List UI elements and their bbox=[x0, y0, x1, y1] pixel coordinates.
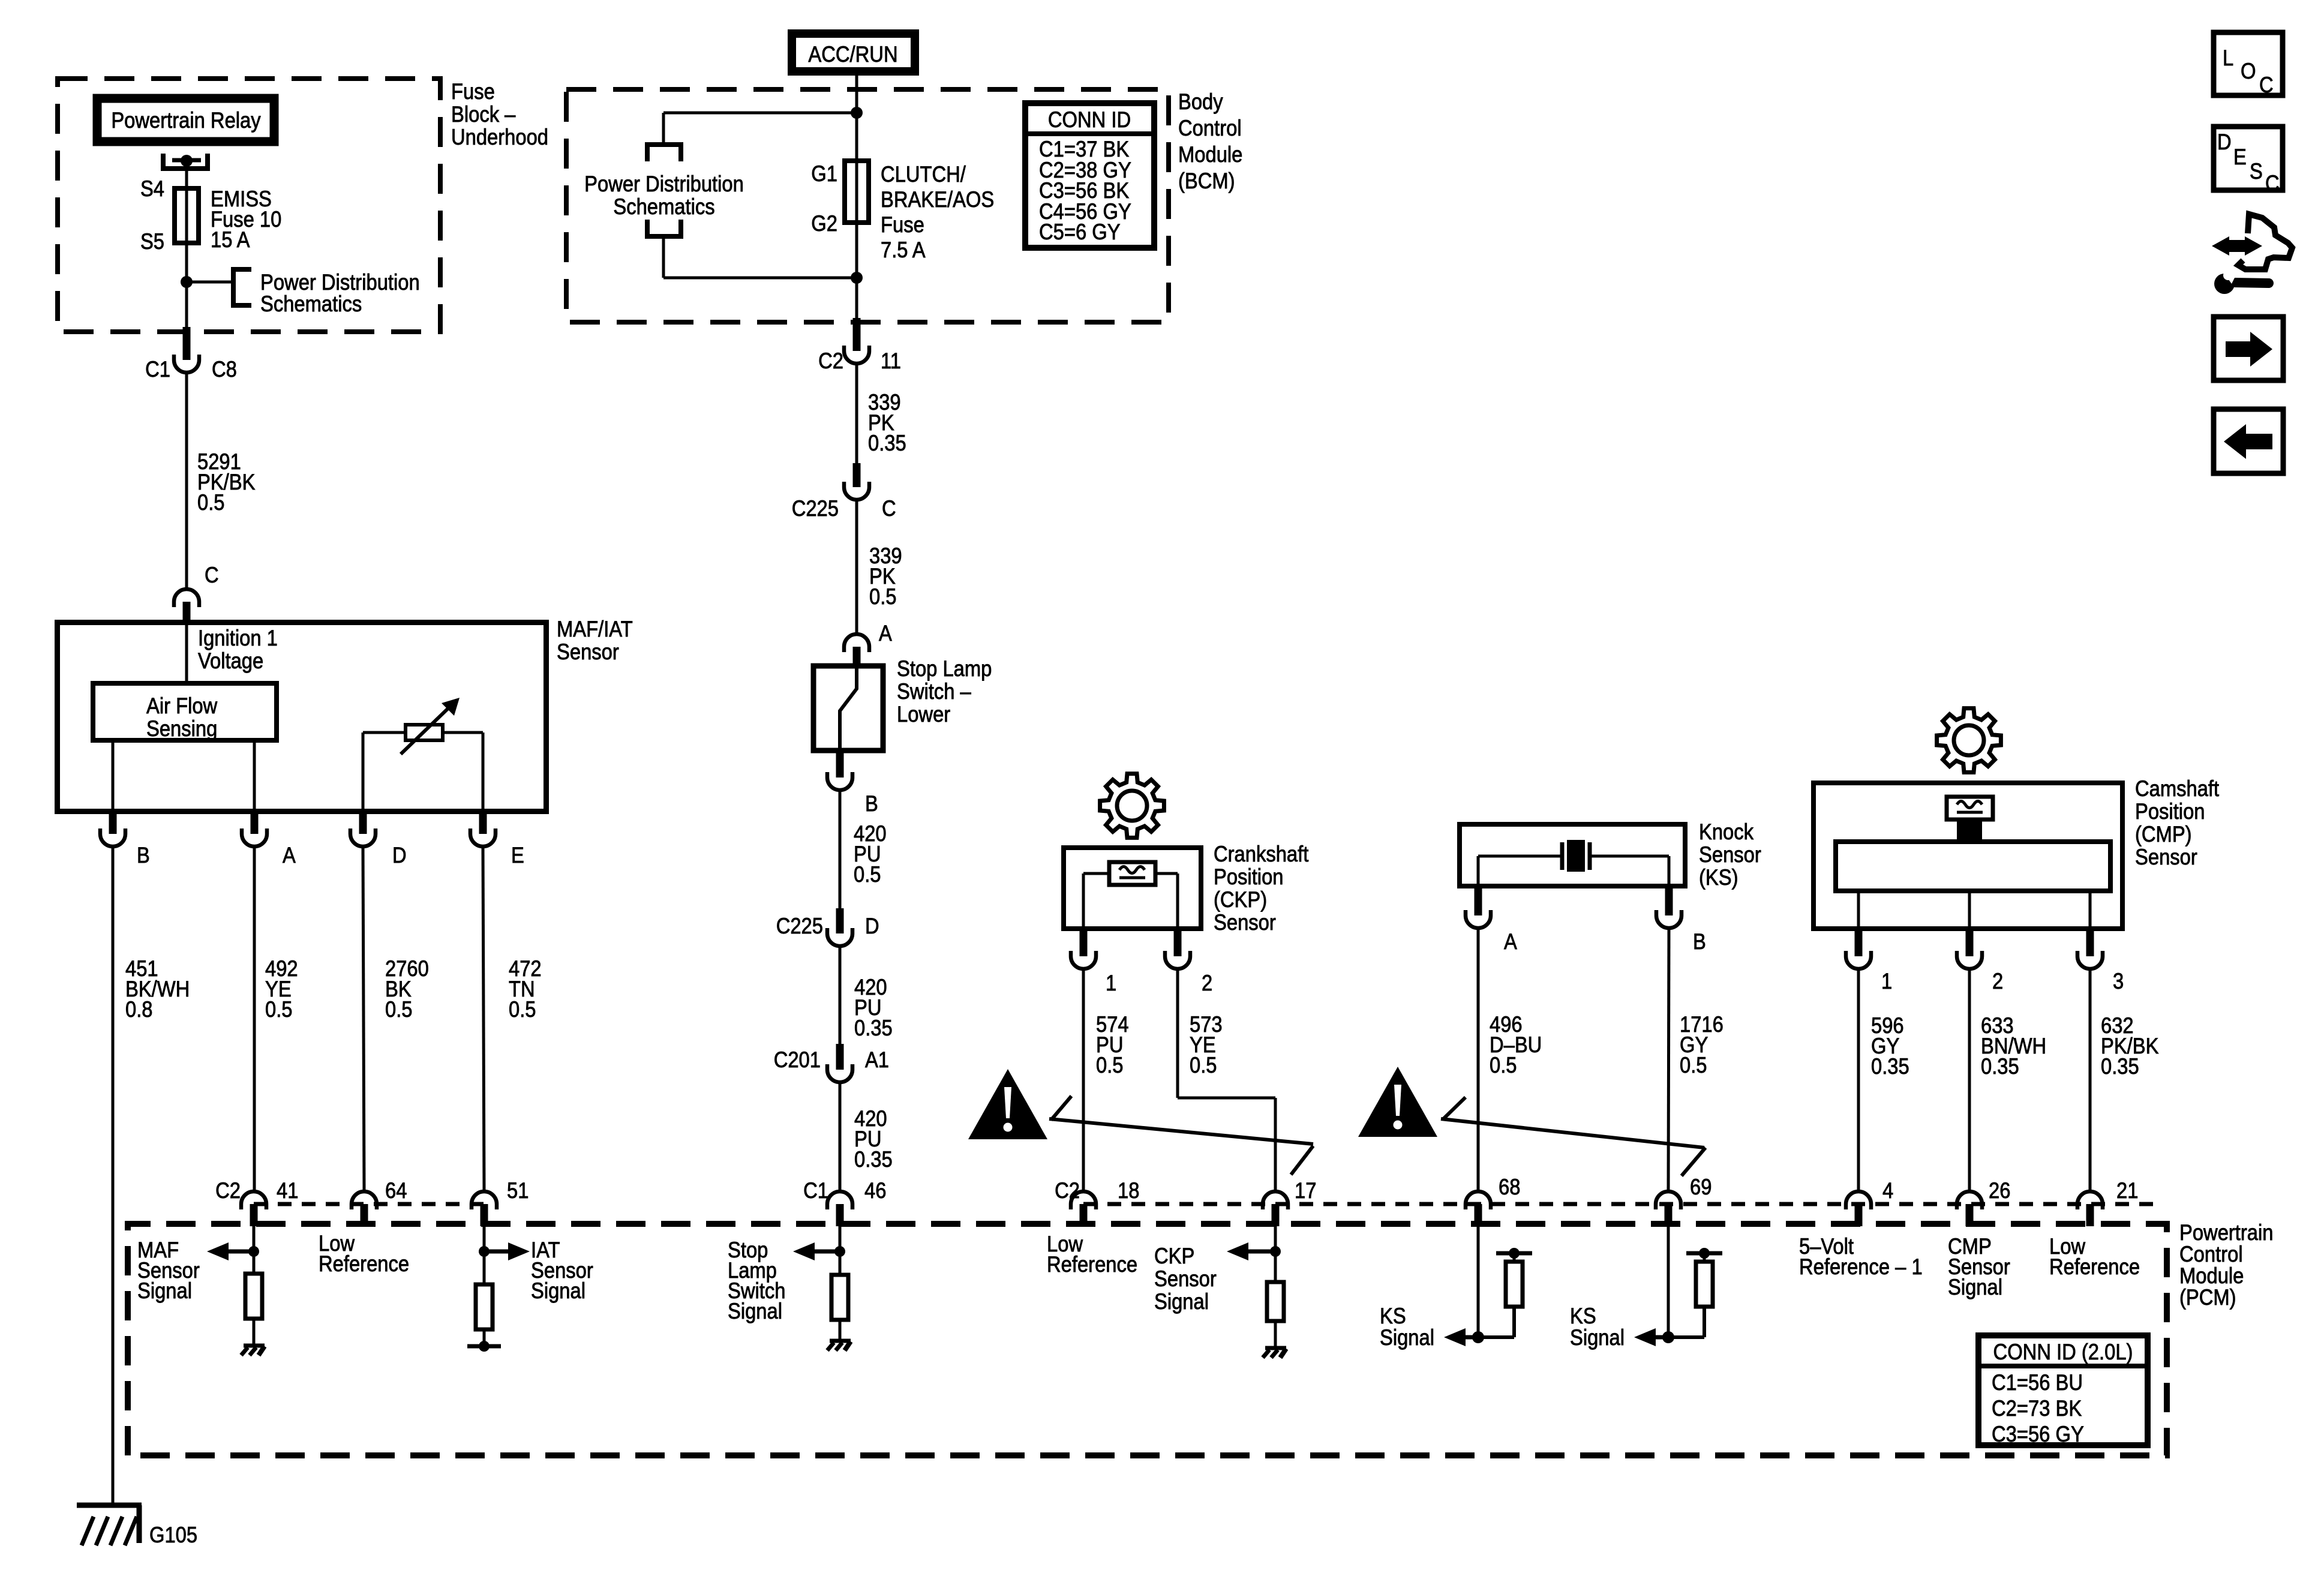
warning triangle KS bbox=[1358, 1067, 1437, 1137]
BCM CONN ID table bbox=[1025, 103, 1154, 248]
wire resistor to ground (MAF) bbox=[253, 1319, 256, 1345]
svg-text:Reference: Reference bbox=[2049, 1254, 2140, 1279]
wire label 1716 GY 0.5 bbox=[1680, 1012, 1724, 1077]
svg-text:Ignition 1: Ignition 1 bbox=[198, 626, 278, 650]
svg-text:Sensor: Sensor bbox=[1154, 1266, 1217, 1291]
pin label 3 (CMP) bbox=[2113, 969, 2124, 993]
svg-text:64: 64 bbox=[385, 1178, 407, 1203]
svg-text:Air Flow: Air Flow bbox=[146, 694, 217, 718]
svg-text:A: A bbox=[879, 621, 892, 646]
pin label 4 bbox=[1882, 1178, 1893, 1203]
svg-text:0.5: 0.5 bbox=[1680, 1053, 1707, 1077]
wire fuse to junction bottom bbox=[855, 223, 858, 322]
svg-text:18: 18 bbox=[1118, 1178, 1139, 1203]
label Fuse Block - Underhood bbox=[451, 79, 548, 149]
label Power Distribution Schematics (fuse block) bbox=[260, 270, 420, 316]
pin label 26 bbox=[1989, 1178, 2010, 1203]
wire ACC/RUN down bbox=[855, 71, 858, 162]
pin label 1 (CKP) bbox=[1106, 971, 1116, 995]
svg-text:26: 26 bbox=[1989, 1178, 2010, 1203]
svg-text:B: B bbox=[137, 843, 150, 867]
PCM internal resistor (IAT) bbox=[476, 1284, 493, 1329]
svg-text:C2: C2 bbox=[215, 1178, 241, 1203]
junction node BCM bottom bbox=[851, 272, 863, 284]
svg-text:Schematics: Schematics bbox=[613, 194, 714, 219]
wire 1716 GY bbox=[1668, 928, 1669, 1191]
svg-text:1: 1 bbox=[1106, 971, 1116, 995]
connector pin B of MAF bbox=[100, 812, 125, 846]
wire resistor to ground (CKP) bbox=[1274, 1321, 1277, 1347]
svg-text:68: 68 bbox=[1499, 1175, 1520, 1199]
svg-text:B: B bbox=[1693, 929, 1706, 954]
wire label 420 PU 0.35 lower bbox=[854, 1106, 893, 1172]
junction node fuse block bbox=[181, 276, 193, 288]
IAT internal termination bar bbox=[467, 1341, 501, 1352]
stop lamp switch box bbox=[813, 666, 883, 751]
connector pin E of MAF bbox=[470, 812, 496, 846]
pin label 69 bbox=[1690, 1175, 1712, 1199]
connector pin A of MAF bbox=[242, 812, 267, 846]
wire relay to fuse S4 bbox=[185, 161, 188, 190]
wire resistor to termination (IAT) bbox=[483, 1329, 486, 1346]
CKP gear icon bbox=[1100, 774, 1164, 838]
label Ignition 1 Voltage bbox=[198, 626, 278, 673]
svg-text:Camshaft: Camshaft bbox=[2135, 776, 2220, 801]
svg-text:Underhood: Underhood bbox=[451, 125, 548, 149]
PCM connector pin at x=3484 bbox=[2077, 1191, 2103, 1226]
ground G105 bbox=[77, 1505, 142, 1545]
svg-text:D: D bbox=[392, 843, 407, 867]
wire junction to connector C1 bbox=[185, 282, 188, 332]
label Body Control Module (BCM) bbox=[1178, 89, 1242, 193]
label G105 bbox=[149, 1523, 197, 1547]
wire PCM pin KS x=2781 internal bbox=[1667, 1226, 1670, 1337]
DESC navigation icon box bbox=[2214, 127, 2283, 196]
wire PCM pin KS x=2464 internal bbox=[1477, 1226, 1480, 1337]
svg-text:69: 69 bbox=[1690, 1175, 1712, 1199]
svg-text:Position: Position bbox=[2135, 799, 2205, 824]
svg-text:Control: Control bbox=[2179, 1242, 2243, 1266]
svg-text:C1: C1 bbox=[803, 1178, 828, 1203]
svg-text:0.35: 0.35 bbox=[2101, 1054, 2139, 1079]
label Low Reference (pin 64) bbox=[319, 1231, 409, 1276]
svg-text:A: A bbox=[283, 843, 296, 867]
svg-text:BRAKE/AOS: BRAKE/AOS bbox=[881, 187, 994, 212]
svg-text:C225: C225 bbox=[776, 914, 823, 938]
PCM connector pin at x=807 bbox=[472, 1191, 497, 1226]
svg-text:KS: KS bbox=[1570, 1304, 1596, 1328]
pin label 68 bbox=[1499, 1175, 1520, 1199]
pin label 11 bbox=[881, 349, 901, 373]
pin label D bbox=[392, 843, 407, 867]
svg-text:Signal: Signal bbox=[137, 1278, 192, 1303]
label 5-Volt Reference - 1 bbox=[1799, 1234, 1923, 1279]
wire IAT pin E bbox=[482, 733, 485, 814]
KS signal arrow x=2464 bbox=[1444, 1328, 1478, 1346]
svg-text:S5: S5 bbox=[140, 229, 164, 254]
junction node KS x=2464 bbox=[1472, 1331, 1484, 1343]
wire PCM pin41 internal bbox=[253, 1226, 256, 1274]
svg-text:0.5: 0.5 bbox=[854, 862, 881, 887]
pin label A1 bbox=[865, 1047, 889, 1072]
MAF/IAT sensor box bbox=[58, 623, 547, 812]
svg-text:Switch –: Switch – bbox=[897, 679, 971, 704]
terminal label G1 bbox=[811, 161, 837, 186]
CKP sensing element bbox=[1109, 862, 1155, 885]
connector pin B of KS bbox=[1656, 886, 1682, 928]
PCM connector pin at x=3283 bbox=[1957, 1191, 1982, 1226]
svg-text:Signal: Signal bbox=[1570, 1325, 1625, 1350]
CMP pin leads bbox=[1858, 891, 2090, 929]
svg-text:15 A: 15 A bbox=[211, 227, 250, 252]
svg-text:Crankshaft: Crankshaft bbox=[1214, 842, 1309, 866]
svg-text:Signal: Signal bbox=[1948, 1275, 2002, 1299]
power distribution schematics bracket bbox=[233, 269, 251, 305]
junction node BCM top bbox=[851, 107, 863, 119]
wire fuse to junction bbox=[185, 243, 188, 282]
wire label 574 PU 0.5 bbox=[1096, 1012, 1129, 1077]
terminal label S5 bbox=[140, 229, 164, 254]
KS piezo element bbox=[1478, 840, 1669, 872]
svg-text:O: O bbox=[2241, 59, 2256, 83]
vehicle repair icon (car with double arrow and wrench) bbox=[2212, 214, 2292, 294]
connector C into MAF sensor bbox=[174, 589, 199, 621]
knock sensor box bbox=[1460, 824, 1685, 886]
svg-text:A: A bbox=[1504, 929, 1517, 954]
svg-text:D: D bbox=[2217, 130, 2232, 154]
svg-text:0.5: 0.5 bbox=[385, 997, 413, 1022]
svg-text:ACC/RUN: ACC/RUN bbox=[808, 42, 897, 67]
terminal label G2 bbox=[811, 211, 837, 236]
label Knock Sensor (KS) bbox=[1699, 819, 1761, 890]
svg-text:G105: G105 bbox=[149, 1523, 197, 1547]
wire 339 PK lower bbox=[855, 500, 858, 635]
svg-text:41: 41 bbox=[277, 1178, 298, 1203]
pin label A bbox=[283, 843, 296, 867]
pin label 1 (CMP) bbox=[1881, 969, 1892, 993]
KS element leads bbox=[1478, 856, 1669, 884]
svg-text:B: B bbox=[865, 791, 878, 816]
junction node pin41 bbox=[248, 1246, 259, 1257]
pin label C2 18 bbox=[1055, 1178, 1139, 1203]
fuse CLUTCH/BRAKE/AOS 7.5A bbox=[845, 161, 869, 223]
svg-text:E: E bbox=[511, 843, 524, 867]
label C225 lower bbox=[776, 914, 823, 938]
connector pin 1 of CKP bbox=[1071, 929, 1096, 969]
caution pointer line CKP bbox=[1049, 1096, 1313, 1175]
wire label 472 TN 0.5 bbox=[509, 956, 542, 1022]
wire to power distribution loop top bbox=[663, 113, 857, 145]
svg-text:0.5: 0.5 bbox=[1190, 1053, 1217, 1077]
pin label D (C225) bbox=[865, 914, 879, 938]
wire 5291 PK/BK bbox=[185, 373, 188, 590]
connector C201 pin A1 bbox=[827, 1044, 852, 1082]
PCM internal resistor (CKP) bbox=[1267, 1282, 1284, 1321]
CKP sensor box bbox=[1064, 848, 1201, 929]
pin label 51 bbox=[507, 1178, 529, 1203]
wire label 339 PK 0.5 bbox=[869, 544, 902, 609]
wire 633 BN/WH bbox=[1968, 969, 1971, 1191]
wire label 420 PU 0.35 upper bbox=[854, 975, 893, 1040]
svg-text:Power Distribution: Power Distribution bbox=[584, 172, 744, 196]
svg-text:2: 2 bbox=[1992, 969, 2003, 993]
wire label 596 GY 0.35 bbox=[1871, 1013, 1909, 1079]
wire 472 TN bbox=[483, 846, 484, 1191]
svg-text:CLUTCH/: CLUTCH/ bbox=[881, 162, 966, 187]
svg-text:51: 51 bbox=[507, 1178, 529, 1203]
svg-text:C2=73 BK: C2=73 BK bbox=[1992, 1396, 2082, 1421]
svg-text:C: C bbox=[882, 496, 896, 521]
CMP gear icon bbox=[1937, 709, 2001, 773]
terminal label S4 bbox=[140, 176, 164, 201]
label KS Signal x=2300 bbox=[1380, 1304, 1434, 1350]
svg-text:11: 11 bbox=[881, 349, 901, 373]
svg-text:(KS): (KS) bbox=[1699, 865, 1739, 890]
wire 596 GY bbox=[1857, 969, 1860, 1191]
pin label A (switch) bbox=[879, 621, 892, 646]
connector C225 pin C bbox=[844, 463, 869, 500]
wire label 5291 PK/BK 0.5 bbox=[197, 449, 256, 515]
svg-text:0.35: 0.35 bbox=[1981, 1054, 2019, 1079]
wire 451 BK/WH to G105 bbox=[112, 846, 115, 1505]
PCM connector pin at x=2126 bbox=[1263, 1191, 1288, 1226]
wire 420 PU 0.35 lower bbox=[839, 1082, 842, 1191]
svg-text:(CMP): (CMP) bbox=[2135, 822, 2192, 846]
svg-text:4: 4 bbox=[1882, 1178, 1893, 1203]
svg-text:(PCM): (PCM) bbox=[2179, 1285, 2236, 1310]
svg-text:C: C bbox=[205, 563, 219, 587]
pin label C1 46 bbox=[803, 1178, 886, 1203]
svg-text:7.5 A: 7.5 A bbox=[881, 238, 926, 262]
svg-text:0.5: 0.5 bbox=[1096, 1053, 1124, 1077]
wire 492 YE bbox=[253, 846, 256, 1191]
svg-text:3: 3 bbox=[2113, 969, 2124, 993]
svg-text:D: D bbox=[865, 914, 879, 938]
pin label B (KS) bbox=[1693, 929, 1706, 954]
svg-text:0.35: 0.35 bbox=[854, 1016, 893, 1040]
svg-text:0.5: 0.5 bbox=[869, 584, 897, 609]
svg-text:Fuse: Fuse bbox=[451, 79, 495, 104]
stop lamp switch blade bbox=[840, 667, 857, 752]
label EMISS Fuse 10 15 A bbox=[211, 187, 281, 252]
svg-text:A1: A1 bbox=[865, 1047, 889, 1072]
wire ignition 1 voltage inside MAF bbox=[185, 621, 188, 683]
pin label B bbox=[137, 843, 150, 867]
label IAT Sensor Signal bbox=[531, 1238, 593, 1303]
wire IAT pin D bbox=[362, 733, 365, 814]
svg-text:Knock: Knock bbox=[1699, 819, 1753, 844]
right arrow icon box bbox=[2214, 317, 2283, 380]
CKP element leads bbox=[1083, 873, 1178, 929]
PCM internal resistor (stop lamp) bbox=[831, 1275, 848, 1320]
svg-text:2: 2 bbox=[1202, 971, 1212, 995]
svg-text:CONN ID (2.0L): CONN ID (2.0L) bbox=[1993, 1340, 2133, 1364]
connector pin A of KS bbox=[1466, 886, 1491, 928]
svg-text:S4: S4 bbox=[140, 176, 164, 201]
pin label 2 (CKP) bbox=[1202, 971, 1212, 995]
svg-text:Stop Lamp: Stop Lamp bbox=[897, 656, 992, 681]
svg-text:Power Distribution: Power Distribution bbox=[260, 270, 420, 295]
label Camshaft Position (CMP) Sensor bbox=[2135, 776, 2220, 869]
svg-text:L: L bbox=[2223, 46, 2233, 70]
svg-text:Signal: Signal bbox=[728, 1299, 782, 1323]
svg-text:C2: C2 bbox=[1055, 1178, 1080, 1203]
pin label 21 bbox=[2116, 1178, 2138, 1203]
label C225 upper bbox=[792, 496, 839, 521]
connector C2 pin 11 of BCM bbox=[844, 318, 869, 364]
svg-text:0.5: 0.5 bbox=[509, 997, 536, 1022]
wire label 496 D-BU 0.5 bbox=[1490, 1012, 1542, 1077]
svg-text:C8: C8 bbox=[212, 357, 237, 382]
svg-text:1: 1 bbox=[1881, 969, 1892, 993]
wire 496 D-BU bbox=[1477, 928, 1480, 1191]
connector A into stop lamp switch bbox=[844, 634, 869, 665]
connector B out of switch bbox=[827, 752, 852, 790]
KS pullup branch x=2464 bbox=[1478, 1248, 1532, 1337]
svg-text:C5=6 GY: C5=6 GY bbox=[1039, 220, 1121, 244]
MAF sensor signal arrow bbox=[207, 1242, 254, 1260]
svg-text:0.35: 0.35 bbox=[854, 1147, 893, 1172]
svg-text:Reference – 1: Reference – 1 bbox=[1799, 1254, 1923, 1279]
svg-text:CONN ID: CONN ID bbox=[1048, 107, 1131, 132]
svg-text:C: C bbox=[2259, 73, 2274, 97]
PCM CONN ID 2.0L table bbox=[1978, 1335, 2148, 1446]
label CLUTCH/BRAKE/AOS Fuse 7.5 A bbox=[881, 162, 994, 262]
svg-text:C201: C201 bbox=[774, 1047, 821, 1072]
svg-text:Signal: Signal bbox=[1380, 1325, 1434, 1350]
svg-text:S: S bbox=[2250, 159, 2263, 184]
fuse F10 EMISS 15A bbox=[175, 188, 199, 243]
svg-text:46: 46 bbox=[864, 1178, 886, 1203]
svg-text:Body: Body bbox=[1178, 89, 1223, 114]
wire label 420 PU 0.5 bbox=[854, 821, 887, 887]
CMP sensor box bbox=[1813, 783, 2122, 929]
wire 2760 BK bbox=[363, 846, 364, 1191]
label Power Distribution Schematics (BCM) bbox=[584, 172, 744, 219]
svg-text:0.35: 0.35 bbox=[868, 431, 906, 455]
svg-text:C2: C2 bbox=[818, 349, 843, 373]
wire PCM pin51 internal bbox=[483, 1226, 486, 1284]
PCM dashed box bbox=[128, 1224, 2167, 1455]
label Low Reference (pin 21) bbox=[2049, 1234, 2140, 1279]
svg-text:KS: KS bbox=[1380, 1304, 1406, 1328]
PCM connector pin at x=2781 bbox=[1656, 1191, 1681, 1226]
label Stop Lamp Switch Signal bbox=[728, 1238, 785, 1323]
wire 339 PK upper bbox=[855, 364, 858, 467]
svg-text:Reference: Reference bbox=[319, 1251, 409, 1276]
svg-text:Lower: Lower bbox=[897, 702, 950, 727]
svg-text:0.5: 0.5 bbox=[1490, 1053, 1517, 1077]
ground symbol PCM stop lamp bbox=[827, 1341, 851, 1350]
svg-text:Sensing: Sensing bbox=[146, 716, 217, 741]
wire label 339 PK 0.35 bbox=[868, 390, 906, 455]
svg-text:C3=56 GY: C3=56 GY bbox=[1992, 1422, 2084, 1446]
ACC/RUN power feed box bbox=[792, 34, 915, 71]
CMP sensing element bbox=[1947, 797, 1993, 840]
svg-text:Module: Module bbox=[2179, 1263, 2244, 1288]
junction node pin46 bbox=[834, 1246, 845, 1257]
svg-text:Block –: Block – bbox=[451, 102, 516, 127]
left arrow icon box bbox=[2214, 409, 2283, 473]
IAT sensor signal arrow bbox=[484, 1242, 530, 1260]
svg-text:Signal: Signal bbox=[1154, 1289, 1209, 1314]
svg-text:Module: Module bbox=[1178, 142, 1242, 167]
svg-text:C: C bbox=[2265, 171, 2280, 196]
svg-text:17: 17 bbox=[1295, 1178, 1316, 1203]
svg-text:G2: G2 bbox=[811, 211, 837, 236]
svg-text:C1: C1 bbox=[145, 357, 170, 382]
pin label 2 (CMP) bbox=[1992, 969, 2003, 993]
wire 420 PU 0.5 bbox=[839, 790, 842, 913]
IAT sensor thermistor bbox=[363, 698, 483, 754]
svg-text:MAF/IAT: MAF/IAT bbox=[557, 617, 633, 641]
svg-text:21: 21 bbox=[2116, 1178, 2138, 1203]
svg-text:Control: Control bbox=[1178, 116, 1242, 140]
svg-text:Sensor: Sensor bbox=[1699, 842, 1761, 867]
wire label 492 YE 0.5 bbox=[265, 956, 298, 1022]
connector pin 1 of CMP bbox=[1846, 929, 1871, 969]
wire label 632 PK/BK 0.35 bbox=[2101, 1013, 2159, 1079]
label Stop Lamp Switch - Lower bbox=[897, 656, 992, 727]
label C1 bbox=[145, 357, 170, 382]
svg-text:(BCM): (BCM) bbox=[1178, 169, 1235, 193]
svg-text:Schematics: Schematics bbox=[260, 292, 362, 316]
connector pin 3 of CMP bbox=[2077, 929, 2103, 969]
wire junction to schematics bracket bbox=[187, 281, 233, 284]
air flow sensing box bbox=[93, 683, 277, 741]
wire 574 PU bbox=[1082, 969, 1085, 1191]
wire label 2760 BK 0.5 bbox=[385, 956, 429, 1022]
PCM connector dotted bus line right bbox=[1083, 1202, 2154, 1206]
label C (MAF pin) bbox=[205, 563, 219, 587]
junction node pin51 bbox=[479, 1246, 490, 1257]
connector pin 2 of CKP bbox=[1165, 929, 1190, 969]
svg-text:Position: Position bbox=[1214, 864, 1284, 889]
PCM connector pin at x=1806 bbox=[1071, 1191, 1096, 1226]
svg-text:Sensor: Sensor bbox=[557, 640, 619, 664]
svg-text:Sensor: Sensor bbox=[2135, 845, 2197, 869]
label MAF Sensor Signal bbox=[137, 1238, 200, 1303]
pin label E bbox=[511, 843, 524, 867]
svg-text:0.5: 0.5 bbox=[265, 997, 293, 1022]
label C201 bbox=[774, 1047, 821, 1072]
ground symbol PCM CKP bbox=[1263, 1348, 1286, 1358]
PCM connector pin at x=1400 bbox=[827, 1191, 852, 1226]
wire AFS pin A bbox=[253, 740, 256, 814]
wire 632 PK/BK bbox=[2089, 969, 2092, 1191]
PCM internal resistor (MAF) bbox=[245, 1274, 262, 1319]
label Crankshaft Position (CKP) Sensor bbox=[1214, 842, 1309, 935]
label C8 bbox=[212, 357, 237, 382]
pin label B (switch) bbox=[865, 791, 878, 816]
pin label 17 bbox=[1295, 1178, 1316, 1203]
svg-text:E: E bbox=[2233, 145, 2247, 169]
pin label C2 41 bbox=[215, 1178, 298, 1203]
junction node KS x=2781 bbox=[1662, 1331, 1674, 1343]
CKP sensor signal arrow bbox=[1227, 1242, 1275, 1260]
svg-text:Powertrain: Powertrain bbox=[2179, 1220, 2274, 1245]
wire power distribution loop bottom bbox=[663, 236, 857, 278]
svg-text:0.8: 0.8 bbox=[125, 997, 153, 1022]
label CMP Sensor Signal bbox=[1948, 1234, 2010, 1299]
svg-text:C1=56 BU: C1=56 BU bbox=[1992, 1370, 2083, 1395]
CMP inner block bbox=[1836, 842, 2110, 891]
connector C1/C8 bbox=[174, 327, 199, 373]
BCM dashed box bbox=[566, 89, 1169, 322]
pin label A (KS) bbox=[1504, 929, 1517, 954]
svg-text:Powertrain Relay: Powertrain Relay bbox=[111, 108, 261, 133]
caution pointer line KS bbox=[1441, 1097, 1706, 1176]
